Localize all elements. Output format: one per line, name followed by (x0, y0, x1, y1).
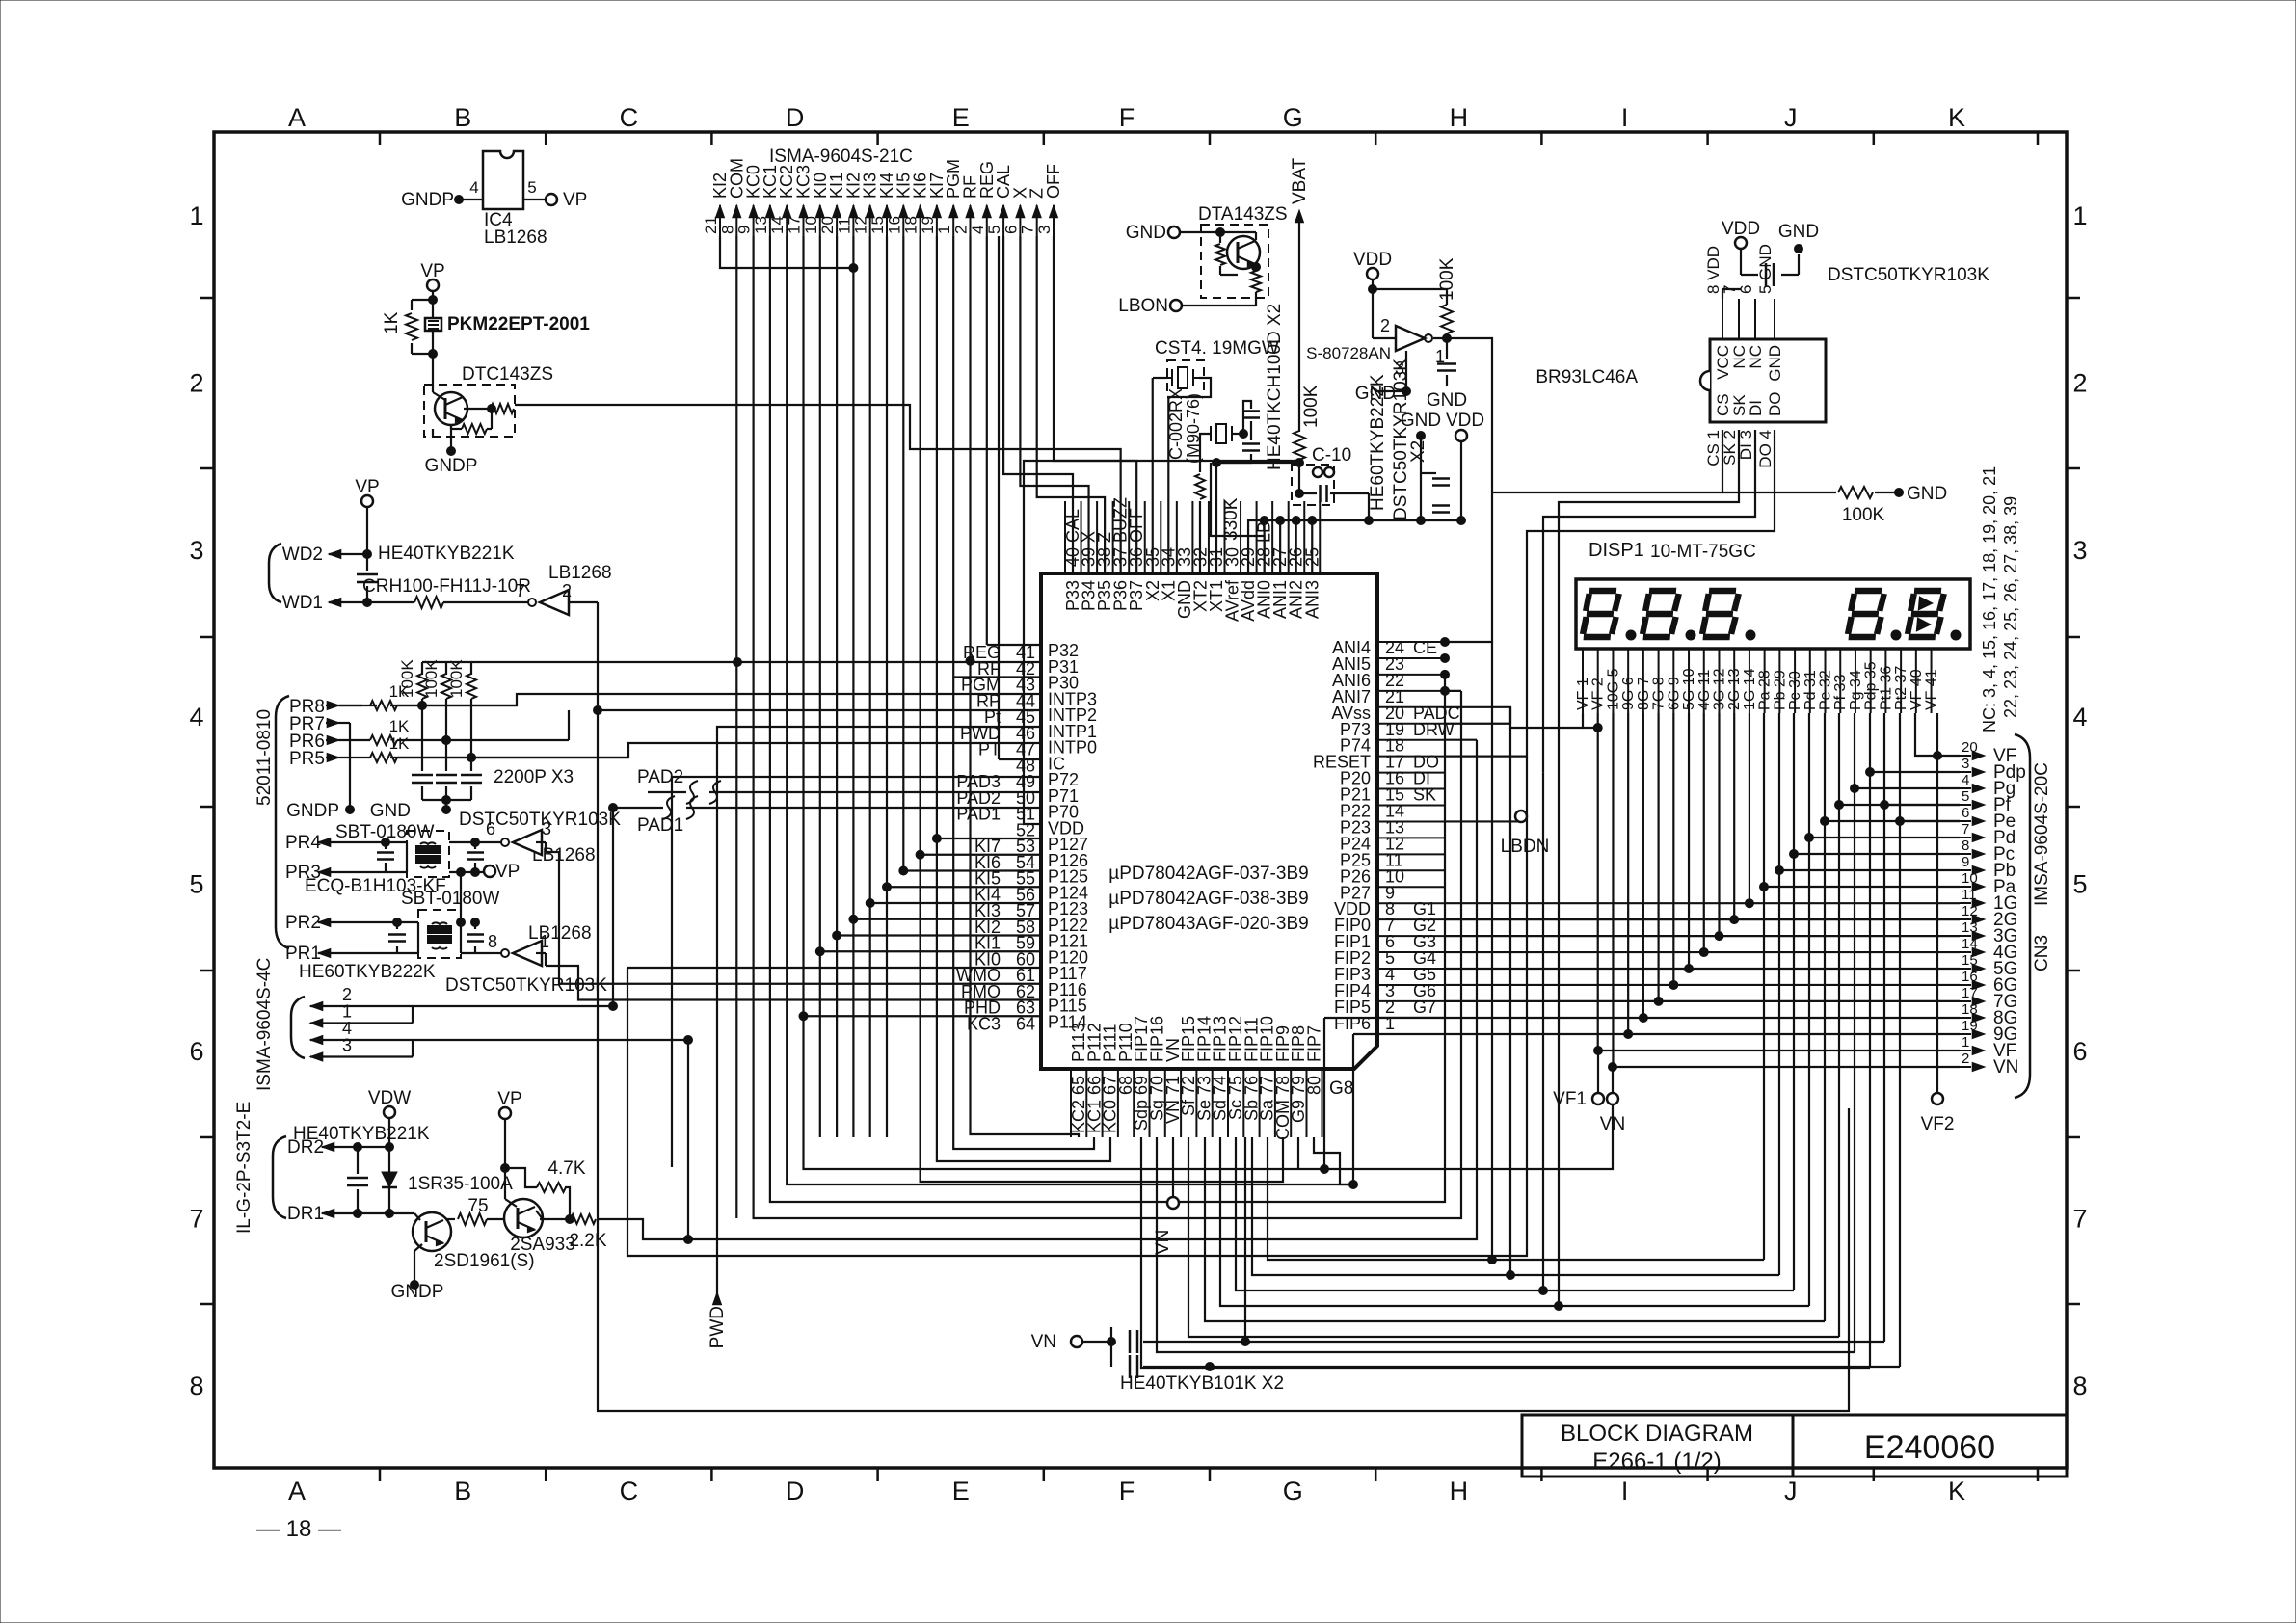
svg-text:13: 13 (752, 216, 770, 234)
svg-text:B: B (454, 103, 471, 132)
svg-text:WD2: WD2 (282, 545, 323, 565)
svg-text:NC: 3, 4, 15, 16, 17, 18, 19,: NC: 3, 4, 15, 16, 17, 18, 19, 20, 21 (1980, 466, 1999, 732)
svg-text:VDD: VDD (1722, 219, 1760, 239)
display digit 3 (1702, 591, 1739, 637)
svg-text:HE40TKCH100D X2: HE40TKCH100D X2 (1265, 304, 1285, 470)
svg-text:100K: 100K (422, 659, 441, 698)
transformer SBT-0180W lower (418, 910, 461, 958)
svg-text:VF 1: VF 1 (1575, 678, 1591, 710)
svg-text:J: J (1784, 103, 1798, 132)
display digit dot 2 (1686, 630, 1695, 640)
svg-text:GND: GND (1766, 345, 1784, 382)
title block (1522, 1415, 1793, 1477)
svg-text:8G 7: 8G 7 (1636, 677, 1652, 710)
capacitor DR (357, 1147, 359, 1174)
svg-text:FIP6: FIP6 (1334, 1014, 1371, 1033)
svg-text:6: 6 (189, 1037, 203, 1066)
wire VN testpoint on pin71 column (1172, 1137, 1174, 1197)
wire kb columns (720, 236, 853, 268)
U1 bottom pin separator lines (1070, 1069, 1072, 1137)
wire 4C columns (612, 808, 614, 1006)
svg-text:1K: 1K (389, 734, 410, 753)
diode 1SR35-100A (388, 1147, 390, 1172)
wire kb cols down to right risers (804, 236, 1614, 1169)
svg-text:100K: 100K (1301, 385, 1322, 428)
wire pin45 to WD column (598, 709, 1041, 711)
svg-text:1K: 1K (389, 717, 410, 735)
svg-text:DTA143ZS: DTA143ZS (1198, 204, 1288, 225)
svg-text:GNDP: GNDP (391, 1282, 444, 1302)
wire PAD2 pin50 with break (709, 791, 1041, 793)
wire WMO column deep line (627, 757, 1527, 1256)
svg-text:Pt1 36: Pt1 36 (1878, 666, 1894, 710)
svg-text:17: 17 (786, 216, 804, 234)
ISMA-4C arrows (310, 1002, 323, 1011)
svg-text:CST4. 19MGW: CST4. 19MGW (1155, 338, 1279, 359)
VP terminal DR (499, 1107, 511, 1119)
svg-text:PAD1: PAD1 (637, 815, 683, 836)
svg-text:VDD: VDD (1446, 411, 1484, 431)
svg-text:D: D (786, 103, 805, 132)
svg-text:LB1268: LB1268 (548, 563, 612, 583)
capacitor DSTC50TKYR103K (1740, 249, 1742, 275)
svg-text:VP: VP (563, 190, 587, 210)
svg-text:5: 5 (527, 178, 536, 197)
wire buzzer to pin37 BUZZ (515, 405, 1121, 573)
svg-text:A: A (288, 1477, 306, 1505)
svg-text:VN: VN (1600, 1114, 1625, 1134)
resistor 100K on VBAT (1294, 431, 1305, 460)
wire nest risers to display cols (1883, 713, 1885, 1342)
capacitors around upper transformer (406, 842, 408, 872)
svg-text:6: 6 (2072, 1037, 2087, 1066)
VBAT stub (1298, 214, 1300, 432)
svg-text:VDD: VDD (1353, 250, 1392, 270)
wire right pin rows 23,22,21 dots (1441, 653, 1450, 662)
display digit 1 (1583, 591, 1619, 637)
svg-text:GNDP: GNDP (401, 190, 454, 210)
svg-text:K: K (1948, 1477, 1965, 1505)
svg-text:E: E (952, 1477, 970, 1505)
VP terminal transformer (484, 865, 495, 877)
svg-text:LBDN: LBDN (1501, 837, 1550, 857)
svg-text:C: C (620, 1477, 639, 1505)
svg-text:9G 6: 9G 6 (1620, 677, 1637, 710)
wire right risers deep extensions (1491, 642, 1493, 1260)
svg-text:H: H (1450, 103, 1469, 132)
wire eeprom DI to DI (1543, 430, 1755, 773)
U1 top pin separator lines (1064, 501, 1066, 573)
wire PHD pin63 (546, 966, 1041, 1000)
svg-text:— 18 —: — 18 — (256, 1516, 341, 1542)
transistor Q DTA143ZS (1227, 236, 1260, 269)
svg-text:2: 2 (1380, 316, 1390, 335)
svg-text:VBAT: VBAT (1290, 157, 1310, 204)
svg-text:8: 8 (189, 1371, 203, 1400)
VDD terminal eeprom (1735, 237, 1747, 249)
svg-text:4: 4 (2072, 703, 2087, 732)
svg-text:ISMA-9604S-21C: ISMA-9604S-21C (769, 146, 913, 167)
svg-text:8: 8 (1962, 838, 1969, 854)
svg-text:8: 8 (488, 932, 497, 951)
svg-text:BLOCK DIAGRAM: BLOCK DIAGRAM (1561, 1421, 1753, 1447)
transistor 2SA933 (504, 1199, 543, 1237)
svg-text:DTC143ZS: DTC143ZS (462, 364, 553, 385)
wire right rows short stubs to risers (1445, 690, 1461, 692)
svg-text:PR2: PR2 (285, 913, 321, 933)
svg-text:HE40TKYB221K: HE40TKYB221K (378, 544, 515, 564)
wire RF row to 100K rail (422, 661, 1041, 663)
wire VDD to eeprom pin8 (1722, 289, 1723, 299)
svg-text:7: 7 (1962, 821, 1969, 838)
svg-text:2: 2 (1962, 1051, 1969, 1067)
svg-text:IMSA-9604S-20C: IMSA-9604S-20C (2032, 762, 2052, 906)
svg-text:GNDP: GNDP (286, 801, 339, 821)
svg-text:3: 3 (542, 819, 551, 838)
wire CN3 G rows to U1 FIP pins (1445, 902, 1960, 904)
svg-text:VP: VP (495, 862, 520, 882)
svg-text:4: 4 (969, 226, 987, 234)
svg-text:2: 2 (562, 581, 572, 600)
eeprom BR93LC46A body (1710, 339, 1826, 422)
svg-text:6: 6 (486, 819, 495, 838)
svg-text:PWD: PWD (707, 1306, 728, 1348)
svg-text:VF 41: VF 41 (1924, 669, 1940, 710)
svg-text:9: 9 (735, 226, 754, 234)
svg-text:7: 7 (189, 1204, 203, 1233)
svg-text:LBON: LBON (1118, 296, 1168, 316)
svg-text:S-80728AN: S-80728AN (1306, 344, 1391, 362)
svg-text:PR5: PR5 (289, 749, 325, 769)
svg-text:1: 1 (189, 201, 203, 230)
svg-text:A: A (288, 103, 306, 132)
wire COM column to kb column (921, 855, 1283, 1182)
display digit dot 5 (1951, 630, 1961, 640)
svg-text:52011-0810: 52011-0810 (254, 709, 275, 806)
svg-text:8: 8 (2072, 1371, 2087, 1400)
svg-text:PR4: PR4 (285, 833, 321, 853)
svg-text:2G 13: 2G 13 (1726, 668, 1743, 710)
svg-text:E240060: E240060 (1864, 1429, 1995, 1466)
GNDP DR (414, 1244, 422, 1282)
svg-text:DR1: DR1 (287, 1204, 324, 1224)
wire pin48 via CAL-col (999, 758, 1041, 760)
wire WD1 inverter output (569, 601, 598, 603)
display pin stubs (1582, 649, 1584, 713)
LBON terminal (1170, 300, 1182, 311)
svg-text:5: 5 (1962, 788, 1969, 805)
buzzer PKM22EPT-2001 (432, 300, 434, 318)
wire WMO pin61 (627, 967, 1041, 969)
capacitors XT x2 (1232, 433, 1243, 435)
resistor 4.7K (537, 1183, 566, 1192)
VP terminal IC4 (523, 199, 546, 200)
svg-text:16: 16 (1962, 969, 1978, 985)
microcontroller U1 uPD78042AGF body (1041, 573, 1377, 1069)
svg-text:10: 10 (1962, 870, 1978, 887)
svg-text:1: 1 (935, 226, 953, 234)
WD1 arrow and line (329, 599, 341, 607)
wire segment lines Sa-Sdp to display columns (1268, 1137, 1764, 1260)
brace DR (273, 1136, 286, 1218)
display digit 2 (1642, 591, 1679, 637)
svg-text:NC: NC (1747, 345, 1765, 369)
resistor 1K buzzer (412, 299, 433, 301)
svg-text:VP: VP (355, 477, 379, 497)
wire long bottom line from WD column (598, 602, 1849, 1411)
U1 right pin box lines (1377, 641, 1445, 643)
display digit dot 3 (1746, 630, 1755, 640)
svg-text:DSTC50TKYR103K: DSTC50TKYR103K (1391, 359, 1411, 520)
svg-text:µPD78042AGF-038-3B9: µPD78042AGF-038-3B9 (1108, 889, 1308, 909)
svg-text:VP: VP (497, 1089, 521, 1109)
svg-text:DISP1: DISP1 (1589, 540, 1644, 561)
capacitors around lower transformer (417, 922, 419, 953)
svg-text:G: G (1283, 1477, 1303, 1505)
transistor Q DTC143ZS (435, 392, 467, 425)
svg-text:10-MT-75GC: 10-MT-75GC (1650, 542, 1756, 562)
svg-text:F: F (1119, 1477, 1135, 1505)
VP terminal WD (361, 495, 373, 507)
svg-text:7: 7 (1019, 226, 1037, 234)
svg-text:G: G (1283, 103, 1303, 132)
wire crystal to X2 X1 columns (1153, 377, 1167, 379)
svg-text:10G 5: 10G 5 (1605, 668, 1621, 710)
capacitors 2200P x3 (421, 705, 423, 771)
transformer SBT-0180W upper (407, 831, 449, 877)
svg-text:2: 2 (189, 368, 203, 397)
svg-text:5G 10: 5G 10 (1681, 668, 1697, 710)
svg-text:X2: X2 (1408, 440, 1428, 463)
GND terminal DTA (1168, 226, 1180, 238)
svg-text:4G 11: 4G 11 (1696, 670, 1713, 711)
svg-text:12: 12 (852, 216, 870, 234)
resistor 75 (445, 1218, 455, 1220)
regulator IC4 LB1268 (483, 151, 523, 209)
VN capacitor block bottom (1071, 1336, 1082, 1347)
display digit dot 4 (1891, 630, 1901, 640)
svg-text:Pb 29: Pb 29 (1772, 670, 1788, 710)
resistor 100K to GND (eeprom CS) (1722, 492, 1836, 493)
transistor DTA143ZS dashed box (1201, 225, 1268, 298)
svg-text:Pf 33: Pf 33 (1832, 675, 1849, 710)
svg-text:3: 3 (342, 1036, 352, 1055)
svg-text:I: I (1621, 1477, 1629, 1505)
wire XT1 column (1215, 463, 1217, 573)
svg-text:DO: DO (1766, 392, 1784, 417)
svg-text:2200P X3: 2200P X3 (494, 767, 574, 787)
svg-text:14: 14 (768, 216, 787, 234)
wire PAD3 pin49 (672, 777, 1041, 1167)
svg-text:CRH100-FH11J-10R: CRH100-FH11J-10R (362, 576, 531, 597)
svg-text:FIP7: FIP7 (1305, 1025, 1324, 1062)
GNDP GND terminals PR (346, 806, 355, 814)
svg-text:SBT-0180W: SBT-0180W (401, 889, 499, 909)
svg-text:VN: VN (1993, 1057, 2018, 1078)
svg-text:PAD2: PAD2 (637, 767, 683, 787)
svg-text:PKM22EPT-2001: PKM22EPT-2001 (447, 314, 590, 334)
svg-text:75: 75 (467, 1196, 488, 1216)
wire VF row 1 and VN row (1598, 1050, 1960, 1051)
svg-text:GND: GND (1401, 411, 1441, 431)
svg-text:DO 4: DO 4 (1756, 430, 1775, 468)
svg-text:C-10: C-10 (1312, 445, 1351, 466)
svg-text:GND: GND (1427, 390, 1467, 411)
svg-text:DSTC50TKYR103K: DSTC50TKYR103K (1828, 265, 1989, 285)
C-10 dashed box (1292, 465, 1334, 505)
VF2 terminal (1932, 1093, 1943, 1104)
resistor WD1 (414, 597, 443, 608)
svg-text:6G 9: 6G 9 (1666, 677, 1682, 710)
svg-text:G8: G8 (1329, 1078, 1353, 1099)
resistor 100K S-80728 (1441, 305, 1453, 333)
VN terminal (1612, 1067, 1614, 1093)
svg-text:10: 10 (802, 216, 820, 234)
svg-text:3: 3 (1035, 226, 1054, 234)
brace WD (269, 544, 281, 602)
svg-text:100K: 100K (447, 659, 466, 698)
wire VF row top (1915, 713, 1937, 756)
svg-text:Pc 30: Pc 30 (1787, 671, 1803, 710)
wire VF41 column to VF2 (1936, 713, 1938, 1093)
svg-text:4: 4 (469, 178, 478, 197)
display digit 4 (1848, 591, 1884, 637)
svg-text:OFF: OFF (1044, 164, 1063, 199)
GND terminal eeprom (1795, 245, 1803, 253)
connector CN3 brace (2015, 734, 2030, 1098)
svg-text:E: E (952, 103, 970, 132)
svg-text:µPD78042AGF-037-3B9: µPD78042AGF-037-3B9 (1108, 864, 1308, 884)
svg-text:ISMA-9604S-4C: ISMA-9604S-4C (254, 958, 275, 1091)
svg-text:2: 2 (2072, 368, 2087, 397)
wire display 8G 9G 10G columns (1642, 713, 1644, 1018)
svg-text:4.7K: 4.7K (547, 1158, 585, 1179)
svg-text:LB1268: LB1268 (528, 923, 592, 944)
svg-text:15: 15 (1962, 952, 1978, 969)
svg-text:21: 21 (702, 216, 720, 234)
svg-text:16: 16 (885, 216, 903, 234)
svg-text:C: C (620, 103, 639, 132)
svg-text:DSTC50TKYR103K: DSTC50TKYR103K (445, 975, 607, 996)
wire VDD pin52 (1024, 461, 1299, 824)
wire CN3 segment rows junctions (1764, 886, 1960, 888)
svg-text:3: 3 (1395, 359, 1404, 378)
svg-text:VF2: VF2 (1921, 1114, 1955, 1134)
svg-text:14: 14 (1962, 936, 1978, 952)
svg-text:µPD78043AGF-020-3B9: µPD78043AGF-020-3B9 (1108, 914, 1308, 934)
svg-text:J: J (1784, 1477, 1798, 1505)
svg-text:Pa 28: Pa 28 (1757, 670, 1774, 710)
svg-text:22, 23, 24, 25, 26, 27, 38, 39: 22, 23, 24, 25, 26, 27, 38, 39 (2001, 496, 2020, 718)
display digit 5 with triangles (1908, 591, 1944, 637)
svg-text:1: 1 (1962, 1034, 1969, 1051)
svg-text:CN3: CN3 (2032, 935, 2052, 971)
svg-text:Pg 34: Pg 34 (1848, 670, 1864, 710)
resistor 1K PR8 (370, 701, 397, 710)
svg-text:GND: GND (1907, 484, 1947, 504)
wire PR5 to pin47 (390, 743, 1041, 758)
svg-text:VP: VP (420, 261, 444, 281)
GND VDD terminals mid (1417, 432, 1426, 440)
svg-text:3G 12: 3G 12 (1711, 668, 1727, 710)
svg-text:330K: 330K (1221, 497, 1241, 541)
svg-text:18: 18 (902, 216, 921, 234)
svg-text:GND: GND (370, 801, 411, 821)
wire inverter output to CE column (1447, 338, 1492, 492)
eeprom top pins (1722, 299, 1723, 339)
VP terminal buzzer (427, 279, 439, 291)
wire PR8 bus to pin44 (390, 694, 1041, 705)
svg-text:7: 7 (516, 581, 525, 600)
svg-text:WD1: WD1 (282, 593, 323, 613)
svg-text:18: 18 (1962, 1001, 1978, 1018)
svg-text:VF 40: VF 40 (1909, 669, 1925, 710)
svg-text:I: I (1621, 103, 1629, 132)
svg-text:E266-1 (1/2): E266-1 (1/2) (1592, 1449, 1721, 1475)
svg-text:5 GND: 5 GND (1756, 244, 1775, 294)
svg-text:VDW: VDW (368, 1088, 411, 1108)
brace PR8-PR5 (276, 696, 289, 948)
svg-text:11: 11 (1962, 887, 1977, 903)
VF1 terminal (1597, 1051, 1599, 1093)
VDW terminal (384, 1106, 395, 1118)
resistor DTC output (464, 408, 492, 410)
resistors 100K x3 (421, 662, 423, 675)
wire eeprom SK to SK (1559, 430, 1739, 789)
crystal CST4 symbol (1178, 367, 1188, 388)
wire PWD pin46 stub (717, 727, 1041, 1296)
wire eeprom CS to CE (1445, 430, 1722, 642)
svg-text:H: H (1450, 1477, 1469, 1505)
svg-text:2: 2 (952, 226, 971, 234)
crystal CST4 dashed box (1167, 360, 1204, 397)
resistor 2.2K (571, 1214, 596, 1224)
svg-text:1K: 1K (382, 311, 402, 334)
wire VF2 display column join (1583, 713, 1598, 728)
wire LBDN stub (1445, 811, 1521, 821)
GNDP below DTC (450, 425, 452, 451)
resistor DTC base feedback (462, 424, 487, 434)
brace ISMA-4C (291, 997, 305, 1058)
svg-text:4: 4 (1962, 772, 1969, 788)
wire eeprom DO to DO (1445, 430, 1775, 757)
svg-text:7: 7 (2072, 1204, 2087, 1233)
resistor DTA emitter (1252, 263, 1261, 272)
svg-text:3: 3 (1962, 756, 1969, 772)
wire PADC to VF join (1445, 707, 1583, 728)
svg-text:GND: GND (1126, 223, 1166, 243)
wire 8G 9G rows to G9/G8 columns (1324, 1017, 1960, 1019)
svg-text:3: 3 (189, 536, 203, 565)
svg-text:2.2K: 2.2K (569, 1231, 606, 1251)
svg-text:Pdp 35: Pdp 35 (1863, 661, 1880, 710)
svg-text:IL-G-2P-S3T2-E: IL-G-2P-S3T2-E (234, 1102, 254, 1234)
connector ISMA-9604S-21C pins (716, 205, 725, 218)
svg-text:HE40TKYB101K X2: HE40TKYB101K X2 (1120, 1373, 1284, 1394)
svg-text:11: 11 (835, 217, 853, 234)
svg-text:F: F (1119, 103, 1135, 132)
wire XT2 column with 330K (1200, 434, 1211, 472)
transistor 2SD1961 (413, 1212, 451, 1251)
crystal C-002RX symbol (1216, 424, 1226, 443)
grid ticks top/bottom (379, 132, 382, 145)
capacitors mid X2 (1432, 477, 1450, 480)
svg-text:3: 3 (2072, 536, 2087, 565)
svg-text:6: 6 (1001, 226, 1020, 234)
svg-text:Pd 31: Pd 31 (1802, 670, 1819, 710)
svg-text:12: 12 (1962, 903, 1978, 919)
svg-text:K: K (1948, 103, 1965, 132)
